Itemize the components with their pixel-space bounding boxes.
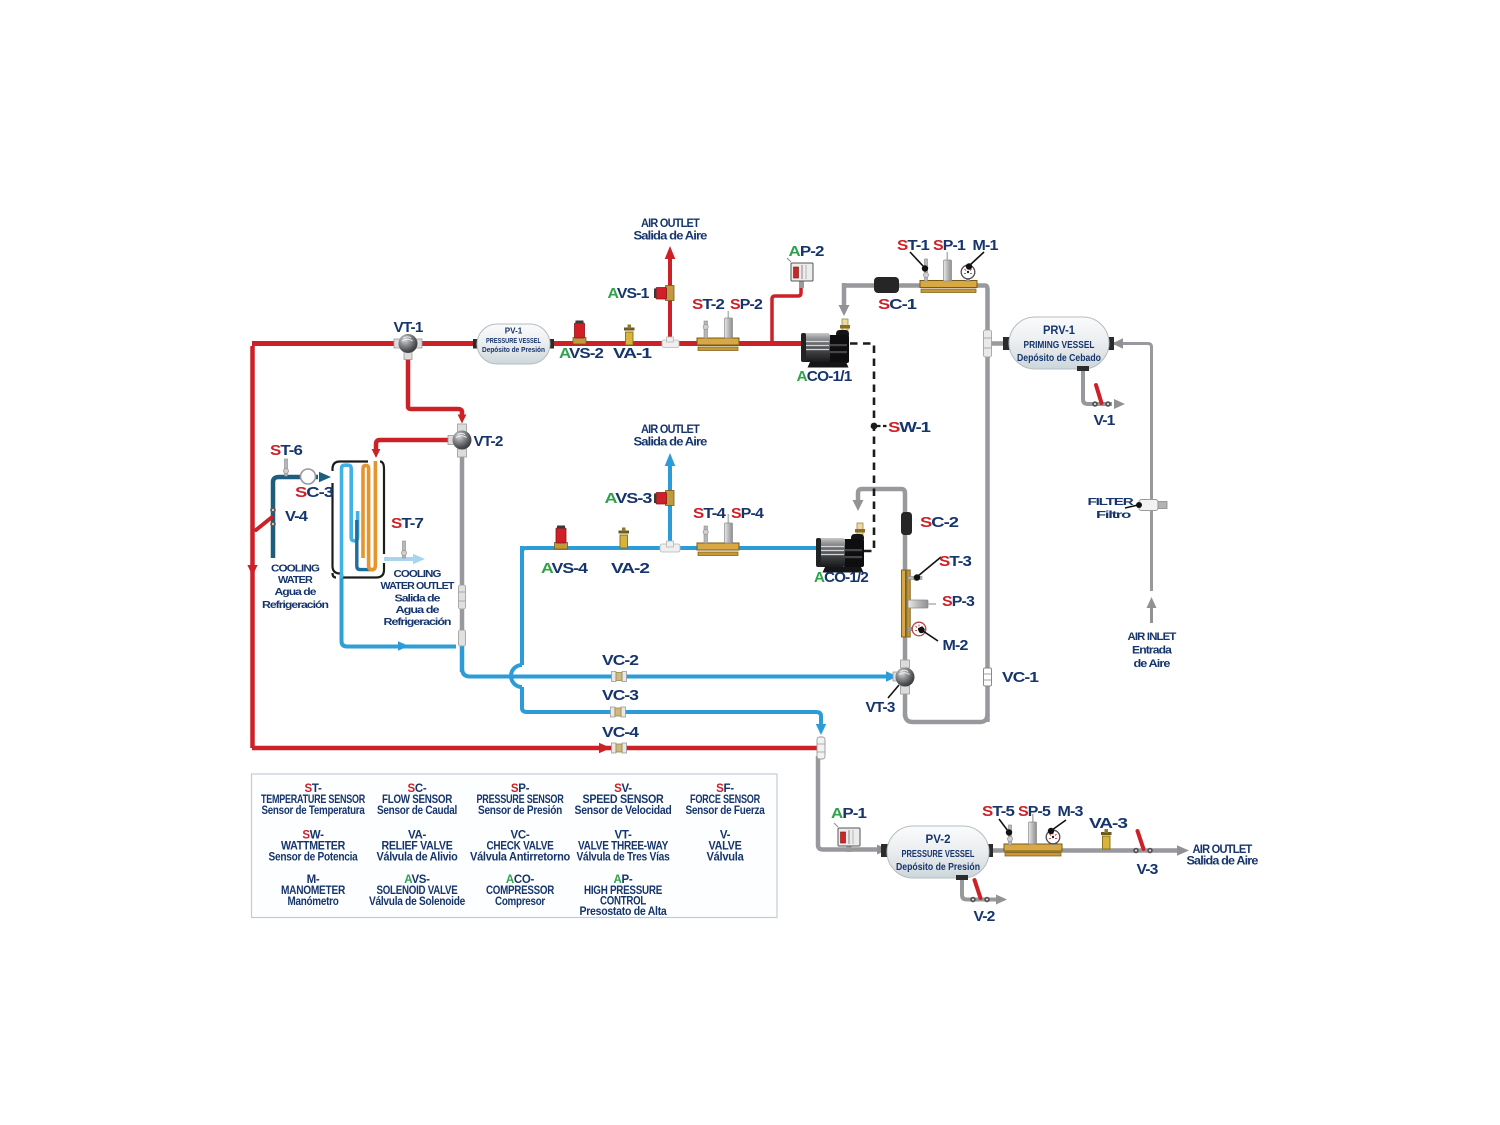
svg-text:PRV-1: PRV-1	[1043, 325, 1076, 337]
svg-text:VC-2: VC-2	[602, 652, 639, 669]
arrow: gray up air inlet	[1147, 597, 1157, 608]
svg-text:de Aire: de Aire	[1134, 658, 1171, 670]
svg-text:Entrada: Entrada	[1132, 645, 1173, 657]
wire: PRV-1 bottom to V-1	[1083, 369, 1112, 404]
svg-text:VT-3: VT-3	[866, 699, 895, 716]
arrow: teal right into exchanger	[319, 472, 331, 482]
temperature sensor ST-5 probe	[1007, 825, 1012, 845]
temperature sensor ST-7 probe	[401, 541, 406, 558]
svg-text:V-1: V-1	[1094, 412, 1115, 429]
svg-text:M-3: M-3	[1058, 803, 1083, 820]
wire: red branch VT-2 to heat exchanger	[376, 440, 452, 451]
tee fitting at blue riser	[660, 541, 680, 552]
legend box	[252, 774, 778, 918]
valve V-3	[1133, 831, 1153, 853]
pressure sensor SP-3 probe	[908, 600, 936, 608]
filter on air inlet line	[1139, 500, 1167, 511]
manometer M-2	[908, 622, 926, 636]
arrow: blue down VC-3 end	[816, 724, 826, 735]
compressor ACO-1/2	[816, 523, 865, 573]
wire: blue line VC-3	[522, 708, 821, 726]
svg-text:PV-2: PV-2	[926, 834, 951, 846]
temperature sensor ST-6 probe	[283, 459, 288, 476]
wire: PV-2 bottom to V-2	[962, 876, 996, 900]
svg-text:Presostato de Alta: Presostato de Alta	[580, 906, 668, 918]
manometer M-3	[1046, 830, 1060, 845]
arrow: gray right into PV-2	[877, 845, 888, 855]
wire: main red discharge line (y=343.5)	[252, 341, 803, 346]
wire: PRV-1 left stub	[985, 341, 1009, 346]
svg-text:V-3: V-3	[1137, 861, 1158, 878]
high pressure control AP-2	[787, 258, 813, 288]
svg-text:AP-1: AP-1	[831, 805, 867, 822]
svg-text:SP-2: SP-2	[730, 296, 762, 313]
manometer M-1	[961, 265, 975, 282]
svg-text:VT-1: VT-1	[394, 319, 423, 336]
svg-text:AVS-3: AVS-3	[605, 490, 653, 507]
wire: teal cooling water inlet	[273, 477, 318, 558]
svg-text:FILTER: FILTER	[1088, 496, 1135, 508]
compressor ACO-1/1	[801, 319, 850, 368]
temperature sensor ST-4 probe	[703, 526, 708, 543]
svg-text:Válvula de Alivio: Válvula de Alivio	[377, 852, 458, 864]
node: SW-1 junction dot	[871, 423, 878, 430]
svg-text:M-2: M-2	[943, 637, 968, 654]
leader line M-3	[1048, 820, 1066, 834]
wire: blue air outlet riser 2	[668, 464, 672, 546]
svg-text:AVS-2: AVS-2	[559, 345, 604, 362]
arrow: red down into VT-2	[458, 415, 467, 424]
flow sensor SC-3	[301, 469, 316, 484]
svg-text:VC-4: VC-4	[602, 724, 640, 741]
wire: blue line VC-2	[462, 668, 886, 677]
wire: gray elbow down to ACO-1/1	[842, 283, 847, 305]
leader line VT-3	[888, 685, 899, 698]
svg-text:SC-3: SC-3	[295, 484, 334, 501]
wire: red air outlet riser	[668, 259, 672, 341]
svg-text:AVS-1: AVS-1	[608, 285, 649, 302]
heat exchanger dark blue tube	[357, 520, 373, 570]
valve V-2	[970, 880, 990, 902]
wire: gray bottom loop to VC-1 column	[905, 714, 988, 722]
svg-text:ACO-1/2: ACO-1/2	[814, 569, 868, 586]
svg-text:COOLING: COOLING	[271, 564, 320, 575]
arrow: red right on VC-4	[599, 743, 611, 753]
svg-text:SC-1: SC-1	[878, 296, 917, 313]
priming vessel PRV-1	[1003, 317, 1114, 371]
svg-text:Válvula: Válvula	[707, 852, 745, 864]
svg-text:ACO-1/1: ACO-1/1	[797, 368, 852, 385]
sensor manifold ST-5/SP-5/M-3	[1004, 844, 1062, 856]
wire: gray loop from ACO-1/2 top	[858, 489, 905, 716]
arrow: gray right V-1 outlet	[1114, 399, 1125, 409]
svg-text:Salida de: Salida de	[395, 594, 442, 605]
svg-text:Salida de Aire: Salida de Aire	[1187, 854, 1259, 868]
leader line M-1	[966, 252, 984, 270]
svg-text:Filtro: Filtro	[1096, 509, 1131, 521]
svg-text:Depósito de Presión: Depósito de Presión	[482, 345, 545, 354]
coupling at exchanger return junction	[459, 630, 466, 646]
svg-text:SP-3: SP-3	[942, 593, 974, 610]
arrow: gray right PV-2 outlet	[1177, 845, 1189, 855]
wire: VT-2 lower stem blue part	[460, 638, 465, 672]
leader line ST-3	[914, 557, 941, 581]
solenoid valve AVS-1	[654, 286, 674, 301]
leader line M-2	[918, 627, 938, 641]
pressure vessel PV-1	[473, 324, 554, 364]
relief valve VA-2	[619, 528, 630, 549]
wire: blue compressor-2 suction line (y=548)	[526, 546, 818, 550]
svg-text:ST-7: ST-7	[391, 515, 424, 532]
svg-text:Refrigeración: Refrigeración	[262, 600, 329, 611]
svg-text:Salida de Aire: Salida de Aire	[634, 229, 708, 243]
svg-text:Depósito de Presión: Depósito de Presión	[896, 862, 980, 873]
coupling on VC-1 column upper	[984, 330, 992, 357]
pressure sensor SP-4 probe	[725, 514, 733, 543]
svg-text:ST-6: ST-6	[270, 442, 303, 459]
sensor manifold ST-1/SP-1/M-1	[920, 281, 977, 293]
svg-text:PRIMING VESSEL: PRIMING VESSEL	[1024, 340, 1095, 351]
svg-text:Sensor de Potencia: Sensor de Potencia	[269, 852, 359, 864]
leader line ST-5	[999, 819, 1012, 836]
wire: gray vertical x=987.5 (PRV-1 / VC-1 line)	[985, 286, 988, 723]
check valve VC-2	[612, 672, 627, 682]
high pressure control AP-1	[834, 823, 860, 852]
solenoid valve AVS-3	[654, 491, 674, 506]
svg-text:VA-1: VA-1	[613, 345, 652, 362]
temperature sensor ST-2 probe	[703, 321, 708, 338]
svg-text:SW-1: SW-1	[888, 419, 931, 436]
check valve VC-4	[612, 743, 627, 753]
solenoid valve AVS-2	[573, 321, 586, 345]
flow sensor SC-1	[874, 277, 899, 293]
svg-text:SP-5: SP-5	[1018, 803, 1050, 820]
svg-text:Válvula de Solenoide: Válvula de Solenoide	[369, 896, 465, 908]
svg-text:ST-1: ST-1	[897, 237, 930, 254]
svg-text:Refrigeración: Refrigeración	[384, 617, 452, 628]
valve V-1	[1092, 385, 1111, 407]
svg-text:COOLING: COOLING	[394, 569, 442, 580]
svg-text:Compresor: Compresor	[495, 896, 546, 908]
temperature sensor ST-3 probe	[908, 575, 922, 580]
svg-text:Agua de: Agua de	[275, 587, 317, 598]
coupling at VC-4 / VC-3 junction	[817, 737, 825, 759]
vertical sensor manifold ST-3/SP-3/M-2	[902, 570, 911, 637]
svg-text:VT-2: VT-2	[474, 433, 503, 450]
wire: gray suction manifold line ST-1 row	[846, 283, 985, 288]
wire: PV-2 outlet line	[989, 848, 1178, 853]
sensor manifold ST-4/SP-4	[697, 543, 739, 556]
svg-text:Sensor de Caudal: Sensor de Caudal	[377, 805, 457, 817]
svg-text:PV-1: PV-1	[505, 326, 523, 336]
three-way valve VT-1	[394, 334, 422, 360]
svg-text:V-4: V-4	[285, 508, 309, 525]
svg-text:Sensor de Fuerza: Sensor de Fuerza	[686, 805, 766, 817]
svg-text:SP-1: SP-1	[933, 237, 965, 254]
check valve VC-3	[611, 707, 626, 717]
wire: blue vertical x=522 upper	[520, 546, 524, 665]
svg-text:Válvula de Tres Vías: Válvula de Tres Vías	[577, 852, 670, 864]
arrow: blue air outlet 2 up	[665, 453, 676, 466]
svg-text:Sensor de Velocidad: Sensor de Velocidad	[575, 805, 672, 817]
svg-text:WATER OUTLET: WATER OUTLET	[381, 581, 455, 592]
svg-text:Salida de Aire: Salida de Aire	[634, 435, 708, 449]
flow sensor SC-2	[901, 512, 912, 535]
wire: dashed wattmeter link ACO-1/1 to ACO-1/2	[850, 344, 874, 552]
arrow: red air outlet up	[665, 246, 676, 259]
wire: left red vertical	[250, 346, 255, 748]
svg-text:SC-2: SC-2	[920, 514, 959, 531]
svg-text:Sensor de Presión: Sensor de Presión	[478, 805, 562, 817]
pressure vessel PV-2	[881, 826, 993, 880]
relief valve VA-3	[1101, 829, 1112, 849]
coupling on VT-2 stem	[459, 585, 466, 609]
arrow: light blue right cooling outlet	[413, 554, 425, 564]
svg-text:ST-3: ST-3	[939, 553, 972, 570]
check valve VC-1	[984, 668, 992, 686]
tee fitting at red riser	[662, 337, 679, 348]
svg-text:VA-2: VA-2	[611, 560, 650, 577]
arrow: gray left into PRV-1	[1112, 338, 1123, 348]
svg-text:SP-4: SP-4	[731, 505, 765, 522]
wire: light blue cooling water outlet	[384, 557, 414, 561]
wire: red branch VT-1 to VT-2	[408, 350, 462, 416]
solenoid valve AVS-4	[555, 526, 568, 550]
arrow: red down left vertical mid	[247, 565, 257, 576]
svg-text:Manómetro: Manómetro	[288, 896, 339, 908]
svg-text:Depósito de Cebado: Depósito de Cebado	[1017, 353, 1101, 364]
svg-text:VC-3: VC-3	[602, 687, 639, 704]
svg-text:PRESSURE VESSEL: PRESSURE VESSEL	[486, 336, 541, 345]
pressure sensor SP-5 probe	[1029, 814, 1037, 844]
svg-text:ST-2: ST-2	[692, 296, 725, 313]
wire: gray feed down to PV-2	[818, 756, 884, 850]
svg-text:VA-3: VA-3	[1089, 815, 1128, 832]
arrow: blue right VC-2 into VT-3	[886, 671, 898, 681]
svg-text:Agua de: Agua de	[396, 605, 441, 616]
wire: heat exchanger blue return	[342, 574, 457, 647]
arrow: red down into heat exchanger	[372, 449, 381, 458]
leader line FILTER	[1125, 502, 1142, 508]
svg-text:WATER: WATER	[278, 575, 314, 586]
wire: red check-valve line VC-4	[252, 746, 818, 751]
valve V-4	[256, 507, 276, 530]
wire: air inlet arrow shaft	[1150, 607, 1153, 623]
svg-text:AVS-4: AVS-4	[541, 560, 589, 577]
arrow: gray right V-2 outlet	[996, 895, 1007, 905]
svg-text:V-2: V-2	[974, 908, 995, 925]
heat exchanger orange coil	[363, 461, 375, 570]
arrow: blue right on exchanger return	[398, 641, 409, 651]
svg-text:PRESSURE VESSEL: PRESSURE VESSEL	[902, 849, 975, 860]
svg-text:ST-4: ST-4	[693, 505, 727, 522]
svg-text:Válvula Antirretorno: Válvula Antirretorno	[470, 852, 570, 864]
heat exchanger frame	[333, 462, 385, 578]
svg-text:AIR INLET: AIR INLET	[1128, 631, 1177, 643]
svg-text:VC-1: VC-1	[1002, 669, 1039, 686]
temperature sensor ST-1 probe	[923, 259, 928, 281]
pressure sensor SP-1 probe	[944, 252, 952, 281]
arrow: gray down into ACO-1/2	[853, 500, 864, 511]
leader line ST-1	[910, 252, 928, 272]
svg-text:ST-5: ST-5	[982, 803, 1015, 820]
three-way valve VT-3	[893, 660, 915, 694]
svg-text:M-1: M-1	[973, 237, 998, 254]
heat exchanger blue coil	[342, 465, 358, 578]
relief valve VA-1	[624, 325, 635, 346]
svg-text:Sensor de Temperatura: Sensor de Temperatura	[262, 805, 366, 817]
wire: hop over VC-2 line	[511, 665, 522, 687]
three-way valve VT-2	[448, 424, 472, 457]
wire: red branch to AP-2	[772, 285, 801, 343]
sensor manifold ST-2/SP-2	[697, 338, 739, 351]
svg-text:AP-2: AP-2	[789, 243, 825, 260]
wire: PRV-1 right inlet line from filter column	[1113, 344, 1152, 592]
wire: VT-2 lower stem gray part	[460, 450, 465, 640]
wire: blue vertical x=522 lower	[520, 687, 524, 708]
pressure sensor SP-2 probe	[725, 311, 733, 338]
arrow: gray down into ACO-1/1	[839, 305, 850, 316]
